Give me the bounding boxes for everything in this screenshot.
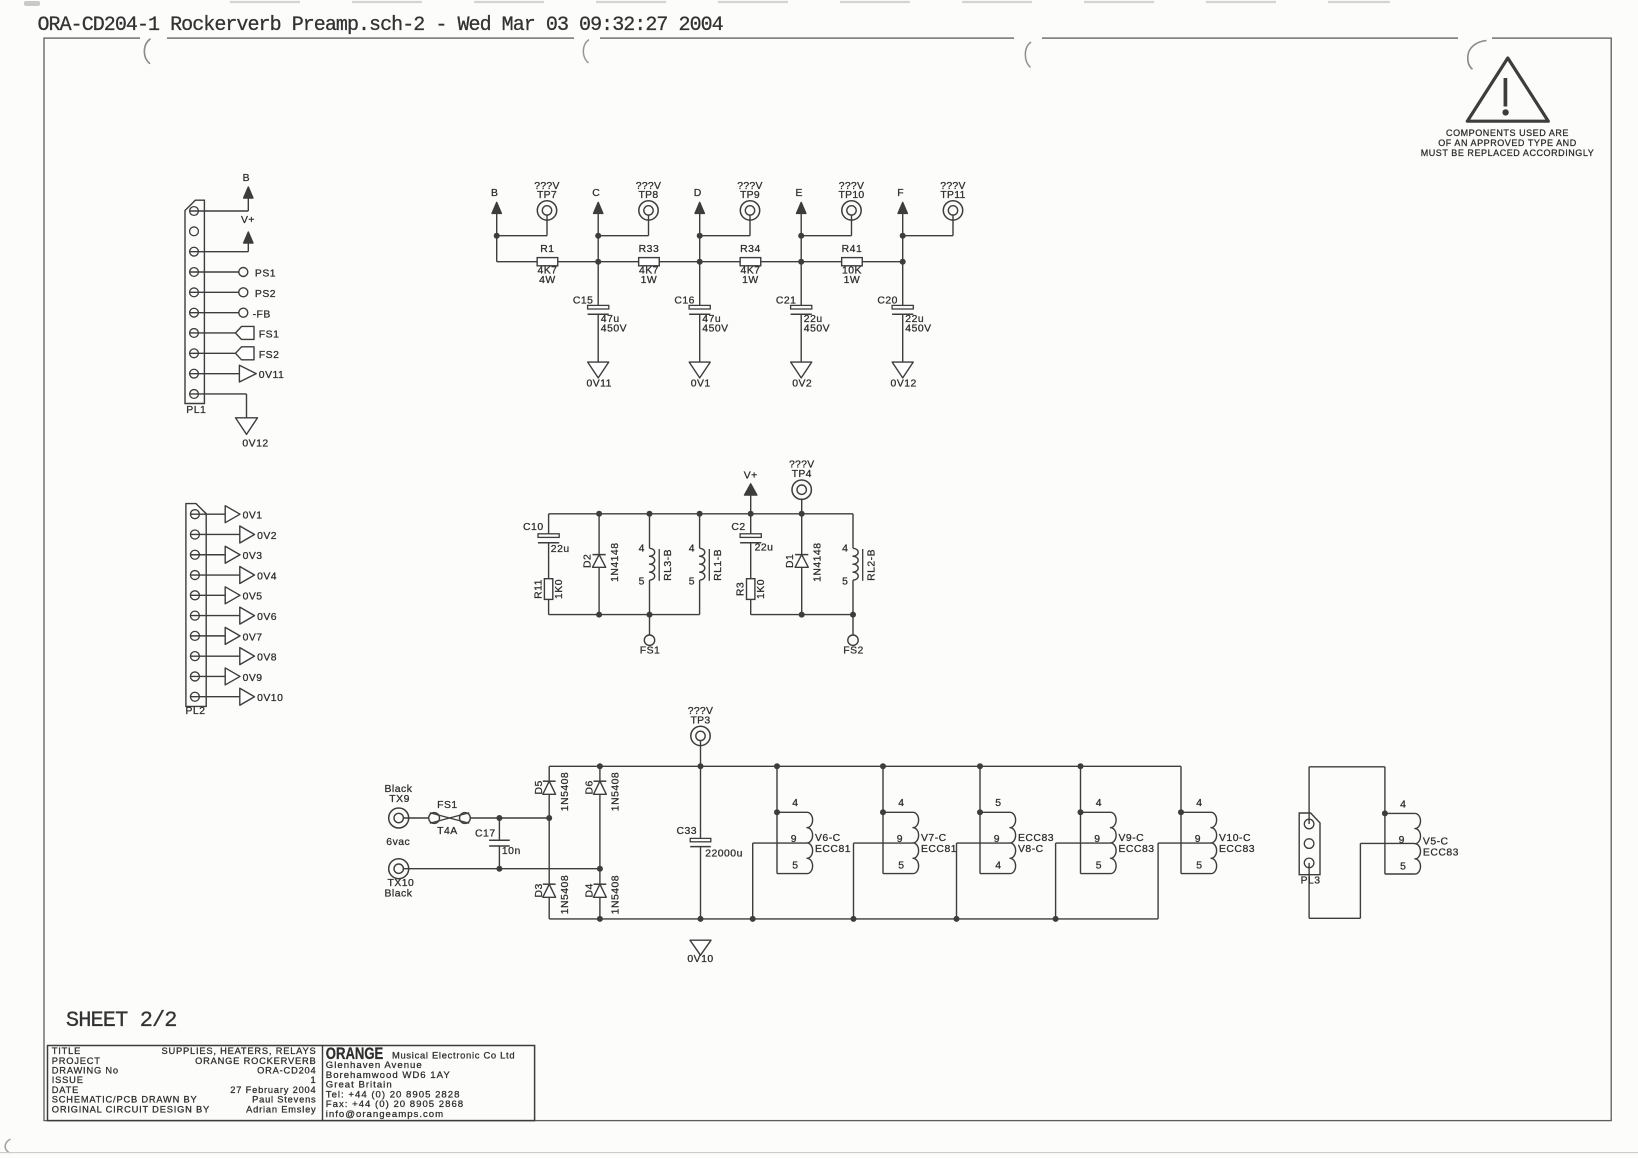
svg-text:1W: 1W xyxy=(844,275,861,286)
svg-text:1N4148: 1N4148 xyxy=(610,542,621,581)
svg-text:Musical Electronic Co Ltd: Musical Electronic Co Ltd xyxy=(392,1050,515,1061)
svg-text:D2: D2 xyxy=(582,554,593,568)
svg-text:4: 4 xyxy=(639,543,645,554)
svg-text:1K0: 1K0 xyxy=(554,579,565,599)
svg-text:ORA-CD204-1 Rockerverb Preamp.: ORA-CD204-1 Rockerverb Preamp.sch-2 - We… xyxy=(38,14,723,37)
svg-text:PS1: PS1 xyxy=(255,269,276,280)
svg-text:V+: V+ xyxy=(744,470,758,481)
svg-text:5: 5 xyxy=(1400,861,1406,872)
svg-text:450V: 450V xyxy=(804,323,830,334)
svg-text:TX10: TX10 xyxy=(388,878,415,889)
svg-text:T4A: T4A xyxy=(437,826,458,837)
svg-text:0V7: 0V7 xyxy=(243,632,263,643)
svg-text:5: 5 xyxy=(689,577,695,588)
svg-text:SHEET 2/2: SHEET 2/2 xyxy=(66,1008,177,1033)
svg-text:10n: 10n xyxy=(502,846,521,857)
svg-text:0V2: 0V2 xyxy=(792,378,812,389)
svg-text:27 February 2004: 27 February 2004 xyxy=(230,1085,316,1095)
svg-text:D6: D6 xyxy=(585,780,596,794)
svg-text:0V1: 0V1 xyxy=(243,511,263,522)
svg-text:TP7: TP7 xyxy=(537,190,557,201)
svg-text:5: 5 xyxy=(1096,860,1102,871)
svg-text:C15: C15 xyxy=(573,295,594,306)
svg-text:9: 9 xyxy=(897,834,903,845)
svg-text:0V6: 0V6 xyxy=(257,612,277,623)
svg-text:4: 4 xyxy=(995,860,1001,871)
svg-text:RL3-B: RL3-B xyxy=(663,549,674,581)
svg-text:D1: D1 xyxy=(785,554,796,568)
svg-text:0V1: 0V1 xyxy=(691,378,711,389)
svg-text:C2: C2 xyxy=(731,522,745,533)
svg-text:V7-C: V7-C xyxy=(921,833,947,844)
svg-text:V9-C: V9-C xyxy=(1119,833,1145,844)
svg-text:4W: 4W xyxy=(539,275,556,286)
svg-text:4: 4 xyxy=(1196,798,1202,809)
svg-text:D5: D5 xyxy=(534,780,545,794)
svg-text:D4: D4 xyxy=(585,883,596,897)
svg-text:C20: C20 xyxy=(877,295,898,306)
svg-text:R41: R41 xyxy=(842,244,863,255)
svg-text:0V9: 0V9 xyxy=(243,673,263,684)
svg-text:C16: C16 xyxy=(674,295,695,306)
svg-text:1W: 1W xyxy=(742,275,759,286)
svg-text:SUPPLIES, HEATERS, RELAYS: SUPPLIES, HEATERS, RELAYS xyxy=(161,1046,316,1056)
svg-text:PS2: PS2 xyxy=(255,289,276,300)
svg-text:B: B xyxy=(243,173,250,184)
svg-text:D3: D3 xyxy=(534,883,545,897)
svg-text:FS1: FS1 xyxy=(259,330,280,341)
svg-text:9: 9 xyxy=(1399,835,1405,846)
svg-text:0V12: 0V12 xyxy=(891,378,917,389)
svg-text:FS2: FS2 xyxy=(843,646,864,657)
svg-text:FS2: FS2 xyxy=(259,350,280,361)
svg-text:C21: C21 xyxy=(776,295,797,306)
svg-text:MUST BE REPLACED ACCORDINGLY: MUST BE REPLACED ACCORDINGLY xyxy=(1421,148,1595,158)
svg-text:RL1-B: RL1-B xyxy=(713,549,724,581)
svg-text:DATE: DATE xyxy=(52,1085,79,1095)
svg-text:1N4148: 1N4148 xyxy=(813,542,824,581)
svg-text:0V11: 0V11 xyxy=(259,370,285,381)
svg-text:TP8: TP8 xyxy=(639,190,659,201)
svg-text:1: 1 xyxy=(311,1075,317,1085)
svg-text:Black: Black xyxy=(385,784,413,795)
svg-text:0V8: 0V8 xyxy=(257,653,277,664)
svg-text:-FB: -FB xyxy=(253,309,271,320)
svg-text:OF AN APPROVED TYPE AND: OF AN APPROVED TYPE AND xyxy=(1438,138,1577,148)
svg-text:450V: 450V xyxy=(702,323,728,334)
svg-text:0V10: 0V10 xyxy=(257,693,283,704)
svg-text:22u: 22u xyxy=(551,544,570,555)
svg-text:4: 4 xyxy=(689,543,695,554)
svg-text:C10: C10 xyxy=(523,522,544,533)
svg-text:4: 4 xyxy=(842,543,848,554)
svg-text:ECC83: ECC83 xyxy=(1119,844,1155,855)
svg-text:D: D xyxy=(694,188,702,199)
svg-text:COMPONENTS USED ARE: COMPONENTS USED ARE xyxy=(1446,128,1569,138)
svg-text:Adrian Emsley: Adrian Emsley xyxy=(246,1104,316,1114)
svg-text:ORA-CD204: ORA-CD204 xyxy=(257,1066,316,1076)
svg-text:V8-C: V8-C xyxy=(1018,844,1044,855)
svg-text:1K0: 1K0 xyxy=(756,579,767,599)
svg-text:TP9: TP9 xyxy=(740,190,760,201)
svg-text:1N5408: 1N5408 xyxy=(560,772,571,811)
svg-text:5: 5 xyxy=(898,860,904,871)
svg-text:TP3: TP3 xyxy=(691,715,711,726)
svg-text:V5-C: V5-C xyxy=(1423,836,1449,847)
svg-text:C33: C33 xyxy=(676,826,697,837)
svg-text:1N5408: 1N5408 xyxy=(611,875,622,914)
svg-text:1N5408: 1N5408 xyxy=(560,875,571,914)
svg-text:6vac: 6vac xyxy=(386,837,410,848)
svg-text:450V: 450V xyxy=(905,323,931,334)
svg-text:0V11: 0V11 xyxy=(586,378,612,389)
svg-text:ORANGE ROCKERVERB: ORANGE ROCKERVERB xyxy=(195,1056,316,1066)
svg-text:ORIGINAL CIRCUIT DESIGN BY: ORIGINAL CIRCUIT DESIGN BY xyxy=(52,1104,210,1114)
svg-text:V10-C: V10-C xyxy=(1219,833,1251,844)
svg-text:PL1: PL1 xyxy=(186,405,206,416)
svg-text:R3: R3 xyxy=(735,582,746,596)
svg-text:ECC83: ECC83 xyxy=(1423,847,1459,858)
svg-text:V+: V+ xyxy=(241,215,255,226)
svg-text:PROJECT: PROJECT xyxy=(52,1056,101,1066)
svg-text:0V12: 0V12 xyxy=(242,438,268,449)
svg-text:5: 5 xyxy=(842,577,848,588)
svg-text:5: 5 xyxy=(995,798,1001,809)
svg-text:FS1: FS1 xyxy=(437,800,458,811)
svg-text:C17: C17 xyxy=(475,828,496,839)
svg-text:TP4: TP4 xyxy=(792,469,812,480)
svg-text:450V: 450V xyxy=(601,323,627,334)
svg-text:ISSUE: ISSUE xyxy=(52,1075,84,1085)
svg-text:PL2: PL2 xyxy=(186,706,206,717)
svg-text:4: 4 xyxy=(898,798,904,809)
svg-text:ECC81: ECC81 xyxy=(921,844,957,855)
svg-text:TP10: TP10 xyxy=(838,190,864,201)
svg-text:R1: R1 xyxy=(540,244,554,255)
svg-text:5: 5 xyxy=(639,577,645,588)
svg-text:R33: R33 xyxy=(639,244,660,255)
svg-text:SCHEMATIC/PCB DRAWN BY: SCHEMATIC/PCB DRAWN BY xyxy=(52,1095,198,1105)
svg-text:9: 9 xyxy=(791,834,797,845)
svg-text:R11: R11 xyxy=(533,579,544,599)
svg-text:B: B xyxy=(491,188,498,199)
svg-text:0V3: 0V3 xyxy=(243,551,263,562)
svg-text:F: F xyxy=(897,188,904,199)
svg-text:V6-C: V6-C xyxy=(815,833,841,844)
svg-text:22u: 22u xyxy=(755,542,774,553)
svg-text:5: 5 xyxy=(792,860,798,871)
svg-text:TITLE: TITLE xyxy=(52,1046,81,1056)
svg-text:TX9: TX9 xyxy=(389,794,410,805)
svg-text:0V5: 0V5 xyxy=(243,592,263,603)
svg-text:9: 9 xyxy=(1094,834,1100,845)
svg-text:FS1: FS1 xyxy=(640,646,661,657)
svg-text:RL2-B: RL2-B xyxy=(866,549,877,581)
svg-text:4: 4 xyxy=(1096,798,1102,809)
svg-text:TP11: TP11 xyxy=(940,190,965,201)
svg-text:Black: Black xyxy=(385,889,413,900)
svg-text:DRAWING No: DRAWING No xyxy=(52,1066,119,1076)
svg-text:5: 5 xyxy=(1196,860,1202,871)
svg-text:R34: R34 xyxy=(740,244,761,255)
svg-text:22000u: 22000u xyxy=(705,848,743,859)
svg-text:9: 9 xyxy=(1195,834,1201,845)
svg-text:0V2: 0V2 xyxy=(257,531,277,542)
svg-text:E: E xyxy=(795,188,802,199)
svg-text:PL3: PL3 xyxy=(1301,875,1321,886)
svg-text:ECC83: ECC83 xyxy=(1219,844,1255,855)
svg-text:4: 4 xyxy=(1400,799,1406,810)
svg-text:C: C xyxy=(592,188,600,199)
svg-text:0V4: 0V4 xyxy=(257,571,277,582)
svg-text:0V10: 0V10 xyxy=(687,954,713,965)
svg-text:ECC81: ECC81 xyxy=(815,844,851,855)
svg-text:1W: 1W xyxy=(641,275,658,286)
svg-text:4: 4 xyxy=(792,798,798,809)
svg-text:9: 9 xyxy=(994,834,1000,845)
svg-text:1N5408: 1N5408 xyxy=(611,772,622,811)
svg-text:ECC83: ECC83 xyxy=(1018,833,1054,844)
svg-text:info@orangeamps.com: info@orangeamps.com xyxy=(326,1109,444,1120)
svg-text:Paul Stevens: Paul Stevens xyxy=(252,1095,316,1105)
